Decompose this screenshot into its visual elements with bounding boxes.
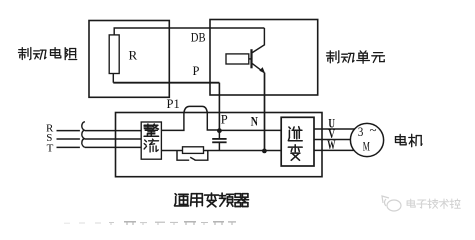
svg-text:W: W bbox=[327, 138, 336, 152]
svg-text:P: P bbox=[221, 113, 228, 127]
svg-text:P: P bbox=[193, 64, 200, 78]
svg-text:T: T bbox=[47, 143, 54, 155]
svg-text:3: 3 bbox=[358, 125, 364, 139]
svg-text:N: N bbox=[251, 115, 258, 129]
svg-text:~: ~ bbox=[370, 122, 377, 137]
svg-text:M: M bbox=[363, 140, 370, 154]
svg-text:DB: DB bbox=[191, 31, 206, 45]
svg-text:P1: P1 bbox=[167, 97, 180, 111]
svg-text:R: R bbox=[129, 48, 138, 63]
